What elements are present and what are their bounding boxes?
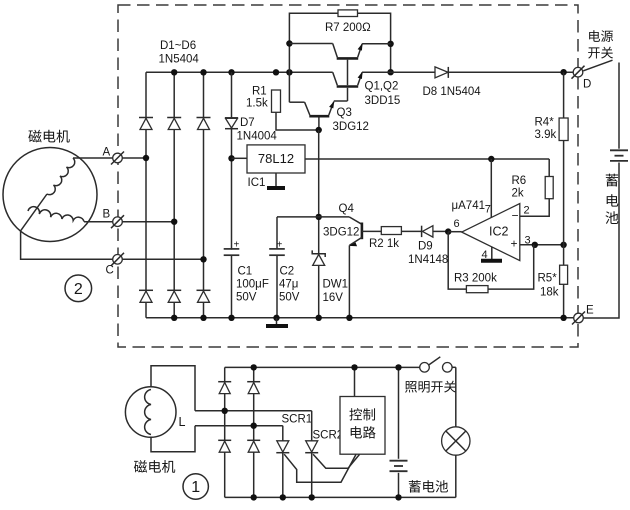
diode D7: [225, 118, 238, 129]
svg-text:R4*: R4*: [535, 117, 555, 129]
wire R2 to D9: [401, 230, 421, 232]
label R1 1.5k: [246, 86, 268, 110]
svg-text:D9: D9: [418, 241, 433, 253]
junction dot 78L12 input: [228, 155, 234, 161]
svg-text:IC1: IC1: [248, 177, 266, 189]
diode D2: [167, 118, 181, 130]
wire phase C vertical from magneto: [21, 231, 113, 259]
control circuit box lead: [354, 367, 356, 396]
svg-text:B: B: [103, 209, 111, 221]
junction dot botbus-SCR2: [309, 494, 315, 500]
connector C: [111, 253, 124, 266]
wire phase B from magneto to connector B: [84, 221, 113, 223]
magneto (lower) coil: [145, 390, 151, 435]
magneto line-1 to SCR2: [195, 410, 312, 412]
control circuit box 控制电路: [340, 397, 385, 455]
svg-text:SCR1: SCR1: [282, 413, 313, 425]
junction dot A-col1: [143, 155, 149, 161]
svg-text:18k: 18k: [540, 287, 559, 299]
junction dot rail-R5: [560, 315, 566, 321]
battery (lower) column bottom: [398, 473, 400, 498]
junction dot rail-C2: [273, 315, 279, 321]
label C1 100uF 50V: [236, 266, 269, 304]
thyristor SCR1: [276, 426, 289, 498]
junction dot botbus-battery: [395, 494, 401, 500]
svg-text:Q1,Q2: Q1,Q2: [365, 81, 399, 93]
svg-text:+: +: [234, 239, 240, 250]
wire switch to battery: [618, 63, 620, 149]
diode D3: [197, 118, 211, 130]
junction dot rail-C1: [228, 315, 234, 321]
resistor R5: [560, 265, 568, 284]
connector E: [572, 312, 585, 325]
magneto bottom terminal wire: [151, 426, 195, 452]
lamp: [442, 427, 470, 455]
wire phase C from connector C to bridge column 3: [122, 258, 203, 260]
junction dot rail-DW1: [316, 315, 322, 321]
bridge column 2: [173, 72, 175, 317]
svg-text:DW1: DW1: [323, 279, 349, 291]
svg-text:50V: 50V: [236, 292, 257, 304]
svg-text:R2 1k: R2 1k: [369, 238, 399, 250]
svg-text:4: 4: [482, 249, 488, 261]
wire R6 bottom to pin2: [520, 199, 549, 217]
svg-text:1: 1: [191, 479, 200, 496]
junction dot pin6 node: [445, 228, 451, 234]
op-amp IC2: [462, 204, 520, 261]
svg-text:3DG12: 3DG12: [323, 227, 359, 239]
transistor Q3: [289, 101, 347, 130]
bridge column 3: [203, 72, 205, 317]
junction dot topbus-box: [351, 364, 357, 370]
circled number 1: [183, 474, 208, 499]
wire phase A from connector A to bridge column 1: [122, 157, 146, 159]
svg-text:−: −: [512, 209, 519, 223]
op-amp pin7 supply wire: [490, 159, 492, 218]
lower diode top-2: [247, 382, 260, 394]
junction dot botbus-SCR1: [280, 494, 286, 500]
diode D5: [167, 290, 181, 302]
svg-text:D7: D7: [240, 117, 255, 129]
junction dot rail-col3: [200, 315, 206, 321]
R5 bottom wire to rail: [563, 284, 565, 318]
svg-text:3.9k: 3.9k: [535, 129, 557, 141]
resistor R1: [272, 90, 319, 130]
battery (lower) column top: [398, 367, 400, 458]
connector D: [572, 66, 585, 79]
svg-text:1N4148: 1N4148: [408, 254, 448, 266]
transistor Q1: [289, 43, 390, 58]
svg-text:3DD15: 3DD15: [365, 95, 401, 107]
svg-text:μA741: μA741: [452, 200, 485, 212]
diode D9: [422, 226, 449, 237]
regulator IC1 78L12 box: [232, 145, 306, 173]
resistor R7: [338, 10, 358, 17]
label 蓄电池 (upper, vertical): [605, 174, 618, 224]
lower bridge bottom bus: [225, 496, 456, 498]
junction dot R7-right output: [387, 69, 393, 75]
resistor R6: [545, 177, 553, 199]
svg-text:3DG12: 3DG12: [333, 121, 369, 133]
wire pin6: [448, 231, 462, 233]
label R7 200Ω: [325, 22, 371, 34]
junction dot pin3-R4R5: [560, 242, 566, 248]
magneto (upper) winding leg to B: [28, 207, 84, 222]
svg-text:+: +: [277, 239, 283, 250]
R5 top wire: [563, 245, 565, 265]
svg-text:47μ: 47μ: [279, 279, 298, 291]
junction dot bus-col3: [200, 69, 206, 75]
thyristor SCR2: [305, 411, 318, 498]
junction dot R1/Q3 base: [316, 127, 322, 133]
svg-text:E: E: [586, 305, 594, 317]
svg-text:C: C: [106, 265, 114, 277]
resistor R2: [381, 227, 401, 235]
battery (lower): [390, 461, 408, 472]
diode D8: [435, 67, 573, 78]
diode D4: [139, 290, 153, 302]
circled number 2: [65, 275, 92, 302]
svg-text:78L12: 78L12: [258, 151, 294, 166]
ground below rail: [266, 318, 288, 326]
svg-text:R5*: R5*: [538, 273, 558, 285]
junction dot line1-col1: [222, 408, 228, 414]
resistor R3: [466, 286, 488, 293]
battery (upper): [610, 150, 628, 161]
capacitor C1: [224, 239, 240, 255]
svg-text:Q3: Q3: [337, 107, 352, 119]
R4 bottom wire to pin3 node: [563, 141, 565, 245]
lower bridge column 1: [224, 367, 226, 497]
bridge column 1: [145, 72, 147, 317]
svg-text:C2: C2: [280, 266, 295, 278]
feedback resistor R3 loop: [448, 232, 466, 289]
lower diode bottom-2: [247, 440, 260, 452]
magneto (upper) winding leg to C: [21, 194, 47, 231]
svg-text:1.5k: 1.5k: [246, 98, 268, 110]
junction dot C2/Q4 collector line: [316, 214, 322, 220]
resistor R7 loop left vertical: [289, 13, 338, 102]
svg-text:L: L: [179, 415, 186, 429]
label 蓄电池 (lower): [409, 480, 421, 492]
wire switch to lamp: [455, 367, 457, 427]
SCR1 gate wire: [284, 454, 356, 482]
main output wire to D8: [362, 71, 435, 73]
junction dot 12V rail / op-amp pin7: [488, 156, 494, 162]
label 磁电机 (lower): [134, 460, 147, 473]
rectifier bottom rail: [146, 317, 574, 319]
junction dot pin3-R3: [532, 242, 538, 248]
junction dot rail-Q4 emitter: [346, 315, 352, 321]
zener diode DW1: [312, 250, 325, 265]
svg-text:50V: 50V: [279, 292, 300, 304]
transistor Q4: [277, 217, 381, 318]
junction dot bus-R7: [286, 69, 292, 75]
svg-text:16V: 16V: [323, 292, 344, 304]
magneto (upper) stator circle: [3, 148, 97, 242]
magneto line-2 to SCR1: [195, 425, 283, 427]
diode D6: [197, 290, 211, 302]
wire R6 to pin2: [548, 159, 550, 177]
svg-text:6: 6: [454, 218, 460, 230]
junction dot topbus-battery: [395, 364, 401, 370]
svg-text:SCR2: SCR2: [313, 430, 344, 442]
junction dot B-col2: [171, 219, 177, 225]
junction dot R7-left Q1 lead: [286, 40, 292, 46]
svg-text:1N5404: 1N5404: [159, 54, 200, 66]
label 磁电机 (upper magneto): [28, 130, 41, 143]
power switch lever: [583, 60, 612, 71]
svg-text:D1~D6: D1~D6: [160, 40, 196, 52]
lower diode top-1: [218, 382, 231, 394]
label 照明开关: [405, 381, 417, 392]
D7/C1 column: [231, 72, 233, 317]
capacitor C2: [269, 217, 285, 318]
svg-text:+: +: [511, 237, 518, 251]
resistor R4: [559, 118, 568, 141]
op-amp pin4 ground: [481, 247, 502, 261]
junction dot botbus-col2: [251, 494, 257, 500]
junction dot bus-R1: [273, 69, 279, 75]
svg-text:R3 200k: R3 200k: [454, 273, 497, 285]
junction dot line2-col2: [251, 423, 257, 429]
svg-text:100μF: 100μF: [236, 279, 269, 291]
lower diode bottom-1: [218, 440, 231, 452]
svg-text:D8 1N5404: D8 1N5404: [423, 86, 482, 98]
rectifier top bus: [146, 71, 333, 73]
junction dot topbus-col2: [251, 364, 257, 370]
svg-text:2k: 2k: [512, 188, 524, 200]
lamp return wire: [455, 455, 457, 497]
svg-text:3: 3: [525, 235, 531, 247]
dashed enclosure box of regulator section 2: [118, 5, 578, 347]
svg-text:R6: R6: [512, 175, 527, 187]
resistor R4 column top: [563, 72, 565, 118]
magneto (upper) winding leg to A: [47, 158, 75, 195]
svg-text:1N4004: 1N4004: [237, 131, 278, 143]
SCR2 gate wire: [313, 454, 359, 468]
svg-text:A: A: [103, 147, 111, 159]
diode D1: [139, 118, 153, 130]
junction dot rail-col2: [171, 315, 177, 321]
svg-text:R7 200Ω: R7 200Ω: [325, 22, 371, 34]
junction dot C-col3: [200, 256, 206, 262]
connector A: [111, 152, 124, 165]
R3 wire to pin3: [488, 245, 534, 289]
svg-text:IC2: IC2: [489, 225, 509, 239]
DW1 / Q3-base column: [318, 130, 320, 318]
svg-text:2: 2: [74, 281, 83, 298]
magneto top terminal wire: [151, 366, 195, 411]
junction dot bus-col2: [171, 69, 177, 75]
label 电源开关: [588, 30, 613, 58]
ground of IC1: [267, 173, 285, 188]
op-amp pin3 wire: [520, 244, 564, 246]
svg-text:D: D: [583, 79, 591, 91]
12V output wire of IC1 to R6 corner: [305, 158, 549, 160]
junction dot bus-D7: [228, 69, 234, 75]
svg-text:Q4: Q4: [339, 203, 355, 215]
wire phase A from magneto to connector A: [73, 157, 113, 159]
junction dot R7-right Q1 lead: [387, 41, 393, 47]
junction dot output-R4: [560, 69, 566, 75]
transistor Q2: [333, 60, 391, 101]
connector B: [111, 215, 124, 228]
lamp switch 照明开关: [420, 357, 456, 372]
svg-text:7: 7: [485, 204, 491, 216]
magneto (lower) circle: [125, 387, 176, 438]
svg-text:R1: R1: [252, 86, 267, 98]
lower bridge top bus: [225, 366, 420, 368]
wire phase B from connector B to bridge column 2: [122, 221, 174, 223]
label C2 47u 50V: [279, 266, 300, 304]
svg-text:2: 2: [524, 205, 530, 217]
lower bridge column 2: [253, 367, 255, 497]
battery negative wire to E rail: [583, 163, 619, 319]
svg-text:C1: C1: [238, 266, 253, 278]
resistor R7 loop right vertical: [358, 13, 391, 72]
